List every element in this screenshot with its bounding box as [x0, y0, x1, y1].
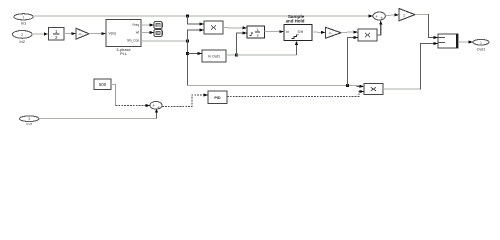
svg-text:s: s: [257, 33, 259, 38]
node junction at In Out1 tap: [186, 52, 189, 55]
svg-text:+: +: [375, 14, 378, 19]
wire Gain2 to Product2 input1: [341, 31, 358, 34]
svg-text:In3: In3: [26, 122, 32, 126]
wire tap to In Out1: [188, 52, 203, 55]
wire Integrator to Sample and Hold: [265, 30, 285, 33]
svg-text:2: 2: [21, 33, 23, 37]
wire up from node to Product2 input2: [348, 36, 359, 86]
svg-text:In: In: [286, 30, 289, 34]
label Sample and Hold: [286, 14, 305, 24]
svg-text:Sin_Cos: Sin_Cos: [127, 39, 139, 43]
wire Sin_Cos down long branch: [187, 41, 189, 86]
svg-text:1: 1: [403, 13, 405, 17]
wire Product2 up to Sum2: [377, 20, 382, 35]
wire Sample Hold to Gain2: [312, 31, 326, 34]
wire In Out1 output to node: [226, 54, 237, 56]
sum block Sum1: [150, 102, 162, 110]
svg-text:1: 1: [480, 41, 482, 45]
wire 1/2 to Gain1: [64, 32, 76, 35]
svg-text:In2: In2: [19, 39, 25, 44]
wire In2 to Gain block: [32, 32, 48, 35]
svg-text:-K-: -K-: [329, 31, 333, 35]
input port In1: [14, 14, 33, 26]
svg-text:PLL: PLL: [120, 51, 128, 56]
gain triangle G3: [399, 9, 415, 21]
node junction In1 branch: [186, 15, 189, 18]
node junction InOut1 out: [235, 54, 238, 57]
wire wt to Terminator2: [141, 31, 154, 34]
wire PID to Product3 input2: [227, 90, 364, 97]
terminator T2: [154, 30, 162, 37]
wire node up to Integrator input2: [237, 31, 248, 55]
gain K triangle G1: [76, 28, 89, 39]
svg-text:In1: In1: [21, 21, 27, 26]
svg-text:V(in): V(in): [109, 32, 117, 36]
product block X2: [358, 29, 377, 41]
wire Freq to Terminator1: [141, 23, 154, 26]
sample and hold block: [284, 25, 312, 41]
svg-text:2: 2: [55, 35, 58, 40]
sum block Sum2: [373, 12, 386, 20]
wire Sin_Cos to node: [141, 40, 188, 42]
wire Product3 up to Mux input2: [383, 42, 438, 90]
svg-text:In Out1: In Out1: [208, 55, 220, 59]
gain block 1/2: [49, 28, 65, 41]
output port Out1: [473, 39, 489, 51]
svg-text:wt: wt: [136, 30, 139, 34]
gain triangle G2: [326, 27, 342, 38]
product block X1: [204, 21, 223, 34]
wire 500 down to Sum1: [111, 84, 150, 107]
wire Sin_Cos up to Product1 input2: [188, 28, 205, 41]
wire node to Sample and Hold trigger: [237, 41, 299, 55]
wire Mux to Out1: [458, 40, 473, 43]
node junction at x347: [346, 84, 349, 87]
integrator 1/s with reset: [247, 26, 265, 38]
input port In2: [12, 31, 32, 44]
svg-text:+: +: [380, 15, 383, 20]
svg-text:Out1: Out1: [477, 46, 486, 51]
svg-text:Freq: Freq: [132, 23, 139, 27]
node junction Sin_Cos: [186, 40, 189, 43]
wire In1 to Sum2: [33, 14, 373, 17]
wire Gain1 to PLL: [89, 32, 106, 35]
product block X3: [364, 84, 383, 95]
constant 500: [94, 79, 111, 95]
svg-text:S/H: S/H: [298, 30, 304, 34]
3-phase PLL block U1: [106, 20, 141, 56]
wire Product1 to Integrator input1: [223, 26, 247, 29]
PID controller block: [208, 91, 227, 104]
svg-text:-K-: -K-: [79, 32, 83, 36]
subsystem In Out1: [202, 50, 226, 62]
wire Sum1 to PID: [162, 93, 208, 106]
wire Sum2 to Gain3: [386, 13, 400, 16]
input port In3: [19, 116, 39, 127]
terminator T1: [154, 22, 162, 29]
svg-text:500: 500: [99, 82, 107, 87]
wire Sin_Cos long horizontal to Product3: [188, 85, 365, 88]
svg-text:PID: PID: [214, 96, 221, 100]
svg-text:+: +: [152, 103, 155, 108]
wire Gain3 down to Mux input1: [415, 14, 438, 39]
mux bus block: [438, 34, 458, 48]
svg-text:and Hold: and Hold: [286, 19, 305, 24]
wire In1 branch to Product1 input1: [188, 16, 205, 26]
svg-text:1: 1: [55, 29, 58, 34]
wire In3 up into Sum1: [39, 108, 158, 118]
svg-text:1: 1: [23, 15, 25, 19]
svg-text:+: +: [157, 105, 160, 110]
